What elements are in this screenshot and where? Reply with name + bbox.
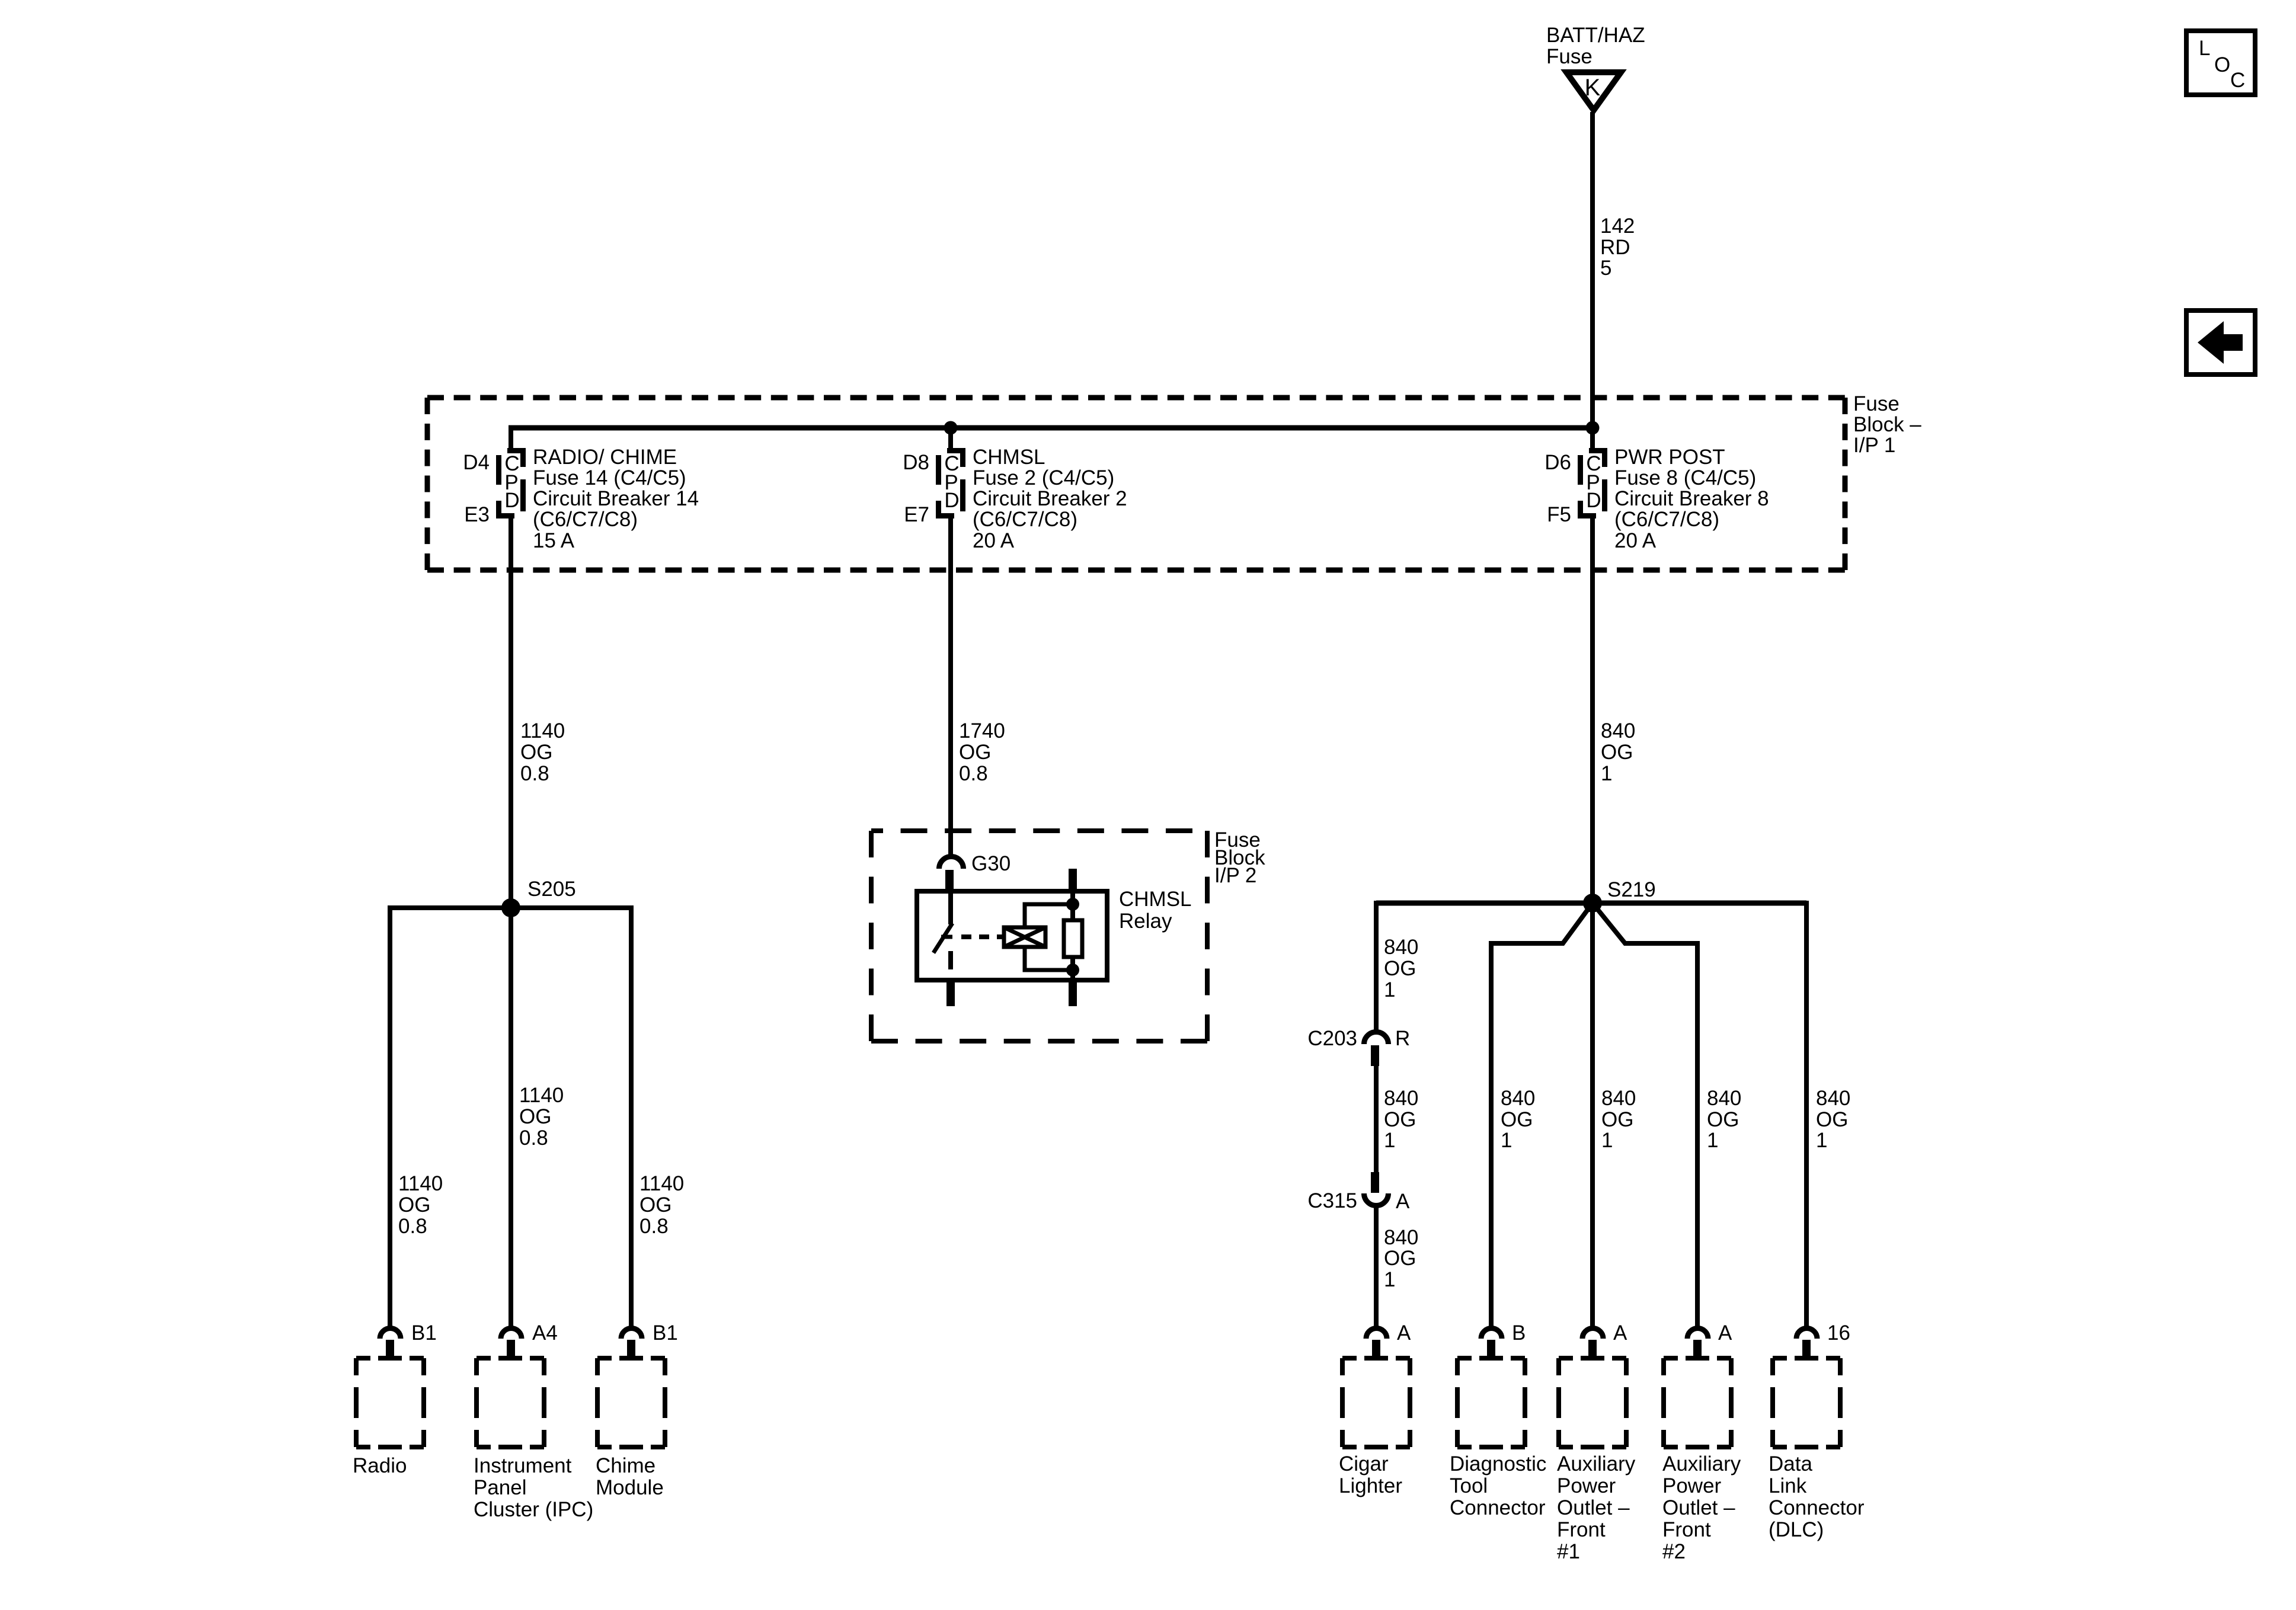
Data Link Connector dashed box	[1773, 1358, 1840, 1447]
svg-text:Link: Link	[1769, 1474, 1807, 1497]
svg-text:S219: S219	[1607, 878, 1656, 901]
svg-text:A: A	[1613, 1321, 1627, 1345]
label Cigar Lighter	[1339, 1452, 1402, 1497]
svg-text:D: D	[944, 489, 959, 512]
wire S219 to Diagnostic Tool Connector (diagonal branch)	[1491, 903, 1593, 1329]
svg-text:Cluster (IPC): Cluster (IPC)	[474, 1498, 593, 1521]
connector B at Diagnostic Tool Connector	[1481, 1321, 1526, 1358]
label Diagnostic Tool Connector	[1450, 1452, 1546, 1519]
svg-text:1140: 1140	[519, 1084, 564, 1107]
svg-text:840: 840	[1707, 1087, 1741, 1110]
label BATT/HAZ Fuse	[1546, 24, 1645, 68]
svg-text:Data: Data	[1769, 1452, 1812, 1475]
label Chime Module	[596, 1454, 664, 1499]
label 1140 OG 0.8 (Radio branch)	[398, 1172, 443, 1238]
wire bus to D4	[509, 425, 513, 450]
svg-text:D6: D6	[1544, 451, 1571, 474]
connector B1 at Chime Module	[621, 1321, 678, 1358]
connector C315 pin A	[1307, 1172, 1410, 1213]
label 1740 OG 0.8	[959, 719, 1005, 785]
wire E7 to G30 (1740 OG)	[948, 516, 953, 857]
svg-text:Connector: Connector	[1769, 1496, 1865, 1519]
svg-text:CHMSL: CHMSL	[1119, 888, 1192, 911]
label Fuse Block - I/P 1	[1853, 392, 1921, 457]
svg-text:PWR POST: PWR POST	[1614, 446, 1725, 469]
svg-text:Panel: Panel	[474, 1476, 527, 1499]
wire S205 branch bus	[390, 905, 631, 910]
svg-text:OG: OG	[520, 741, 552, 764]
svg-text:C315: C315	[1307, 1189, 1357, 1212]
wire rail top	[1070, 891, 1075, 922]
svg-text:Cigar: Cigar	[1339, 1452, 1389, 1475]
svg-text:840: 840	[1384, 1087, 1418, 1110]
back-arrow navigation box	[2186, 311, 2255, 375]
svg-text:20 A: 20 A	[973, 529, 1015, 552]
svg-text:OG: OG	[1601, 741, 1633, 764]
svg-text:I/P 1: I/P 1	[1853, 434, 1895, 457]
svg-text:A4: A4	[532, 1321, 558, 1345]
svg-text:Fuse 2 (C4/C5): Fuse 2 (C4/C5)	[973, 466, 1114, 489]
wire S219 to DLC (down at right)	[1804, 901, 1809, 1329]
svg-text:840: 840	[1816, 1087, 1850, 1110]
svg-text:OG: OG	[1601, 1108, 1633, 1131]
svg-text:OG: OG	[1384, 1108, 1416, 1131]
svg-text:O: O	[2214, 53, 2230, 76]
svg-text:Module: Module	[596, 1476, 664, 1499]
svg-text:1140: 1140	[520, 719, 565, 742]
label PWR POST fuse description	[1614, 446, 1769, 552]
svg-text:B1: B1	[411, 1321, 437, 1345]
junction dot at D8 tap	[944, 421, 958, 435]
svg-text:1140: 1140	[398, 1172, 443, 1195]
svg-text:OG: OG	[1707, 1108, 1739, 1131]
svg-text:A: A	[1718, 1321, 1732, 1345]
svg-text:Block –: Block –	[1853, 413, 1921, 436]
relay coil (solenoid box with X)	[1004, 927, 1045, 947]
svg-text:CHMSL: CHMSL	[973, 446, 1045, 469]
svg-text:(DLC): (DLC)	[1769, 1518, 1824, 1541]
svg-text:C: C	[2230, 69, 2245, 92]
svg-text:OG: OG	[1816, 1108, 1848, 1131]
Fuse Block I/P 2 dashed box	[871, 831, 1207, 1041]
svg-text:Power: Power	[1557, 1474, 1616, 1497]
svg-text:840: 840	[1501, 1087, 1535, 1110]
wire coil to rail (bottom)	[1025, 947, 1073, 970]
svg-text:0.8: 0.8	[639, 1215, 669, 1238]
wire S205 to Chime Module	[629, 905, 634, 1329]
fuse/circuit breaker symbol D6/F5 (PWR POST Fuse 8)	[1578, 448, 1607, 518]
bus wire inside fuse block	[509, 425, 1593, 431]
svg-text:OG: OG	[398, 1193, 430, 1217]
svg-text:840: 840	[1384, 1226, 1418, 1249]
svg-text:OG: OG	[519, 1105, 551, 1128]
svg-text:OG: OG	[1384, 1247, 1416, 1270]
label 1140 OG 0.8 (IPC branch)	[519, 1084, 564, 1150]
relay switch (movable contact)	[933, 891, 952, 969]
svg-text:Auxiliary: Auxiliary	[1557, 1452, 1636, 1475]
label 840 OG 1 (between C203 and C315)	[1384, 1087, 1418, 1152]
svg-text:Fuse: Fuse	[1546, 45, 1593, 68]
relay switch bottom pin	[946, 980, 955, 1006]
label 840 OG 1 (Diagnostic branch)	[1501, 1087, 1535, 1152]
svg-text:1: 1	[1501, 1129, 1512, 1152]
svg-text:16: 16	[1827, 1321, 1850, 1345]
svg-text:1: 1	[1601, 762, 1612, 785]
label RADIO/CHIME fuse description	[533, 446, 699, 552]
wire 142 RD 5 (from fuse K to fuse block)	[1590, 112, 1595, 450]
junction dot coil bottom / rail	[1066, 964, 1079, 977]
svg-text:K: K	[1585, 75, 1601, 101]
resistor inside relay	[1064, 920, 1082, 957]
svg-text:F5: F5	[1547, 503, 1571, 526]
svg-text:Fuse 14 (C4/C5): Fuse 14 (C4/C5)	[533, 466, 686, 489]
label 1140 OG 0.8 (E3 branch)	[520, 719, 565, 785]
relay right rail top pin	[1069, 869, 1077, 892]
relay right rail bottom pin	[1069, 980, 1077, 1006]
Cigar Lighter dashed box	[1342, 1358, 1410, 1447]
label Instrument Panel Cluster (IPC)	[474, 1454, 593, 1521]
fuse/circuit breaker symbol D8/E7 (CHMSL Fuse 2)	[936, 448, 965, 518]
connector A at Aux Power Outlet 1	[1582, 1321, 1627, 1358]
svg-text:D: D	[1586, 489, 1601, 512]
svg-text:0.8: 0.8	[520, 762, 549, 785]
svg-text:1: 1	[1384, 978, 1395, 1001]
svg-text:1: 1	[1384, 1129, 1395, 1152]
svg-text:RADIO/ CHIME: RADIO/ CHIME	[533, 446, 677, 469]
svg-text:D: D	[504, 489, 519, 512]
svg-text:0.8: 0.8	[959, 762, 988, 785]
svg-text:L: L	[2199, 37, 2210, 60]
LOC legend box	[2186, 31, 2255, 95]
svg-text:840: 840	[1384, 936, 1418, 959]
svg-text:B: B	[1512, 1321, 1526, 1345]
svg-text:S205: S205	[527, 878, 576, 901]
junction dot at 142-RD wire / bus	[1586, 421, 1600, 435]
svg-text:Lighter: Lighter	[1339, 1474, 1402, 1497]
svg-text:1140: 1140	[639, 1172, 684, 1195]
svg-text:840: 840	[1601, 1087, 1636, 1110]
label 840 OG 1 (Aux Outlet 2 branch)	[1707, 1087, 1741, 1152]
svg-text:A: A	[1396, 1190, 1410, 1213]
svg-text:A: A	[1397, 1321, 1411, 1345]
wire S205 to IPC	[509, 908, 513, 1329]
wire C315 to Cigar Lighter	[1374, 1204, 1379, 1329]
svg-text:1: 1	[1601, 1129, 1613, 1152]
wire bus to D8	[948, 428, 953, 450]
svg-text:Instrument: Instrument	[474, 1454, 572, 1477]
relay actuator dashed link	[961, 934, 1004, 939]
svg-text:0.8: 0.8	[519, 1126, 548, 1150]
svg-text:G30: G30	[971, 852, 1011, 875]
label Data Link Connector (DLC)	[1769, 1452, 1865, 1541]
svg-text:Outlet –: Outlet –	[1557, 1496, 1630, 1519]
connector B1 at Radio	[380, 1321, 437, 1358]
connector A at Cigar Lighter	[1366, 1321, 1411, 1358]
connector 16 at DLC	[1796, 1321, 1850, 1358]
svg-text:R: R	[1395, 1027, 1410, 1050]
svg-text:#2: #2	[1662, 1540, 1686, 1563]
connector A4 at IPC	[501, 1321, 558, 1358]
label 142 RD 5	[1600, 215, 1635, 280]
svg-text:D4: D4	[463, 451, 490, 474]
label Auxiliary Power Outlet Front 2	[1662, 1452, 1741, 1563]
label CHMSL Relay	[1119, 888, 1192, 933]
Fuse Block I/P 1 dashed box	[427, 398, 1845, 570]
connector G30	[939, 852, 1011, 889]
label 840 OG 1 (Aux Outlet 1 branch)	[1601, 1087, 1636, 1152]
splice S205	[501, 878, 576, 917]
fuse/circuit breaker symbol D4/E3 (RADIO/CHIME Fuse 14)	[496, 448, 526, 518]
svg-text:Fuse 8 (C4/C5): Fuse 8 (C4/C5)	[1614, 466, 1756, 489]
svg-text:1: 1	[1816, 1129, 1827, 1152]
svg-text:(C6/C7/C8): (C6/C7/C8)	[533, 508, 638, 531]
Chime Module dashed box	[597, 1358, 665, 1447]
svg-text:Tool: Tool	[1450, 1474, 1488, 1497]
splice S219	[1583, 878, 1656, 913]
svg-text:Connector: Connector	[1450, 1496, 1546, 1519]
label 840 OG 1 (DLC branch)	[1816, 1087, 1850, 1152]
svg-text:5: 5	[1600, 257, 1611, 280]
svg-text:15 A: 15 A	[533, 529, 575, 552]
svg-text:OG: OG	[959, 741, 991, 764]
svg-text:Radio: Radio	[353, 1454, 407, 1477]
svg-text:E3: E3	[464, 503, 490, 526]
svg-text:Circuit Breaker 8: Circuit Breaker 8	[1614, 487, 1769, 510]
wire S205 to Radio	[388, 905, 392, 1329]
svg-text:(C6/C7/C8): (C6/C7/C8)	[1614, 508, 1719, 531]
label 1140 OG 0.8 (Chime branch)	[639, 1172, 684, 1238]
svg-text:D8: D8	[903, 451, 929, 474]
connector A at Aux Power Outlet 2	[1687, 1321, 1732, 1358]
label Fuse Block I/P 2	[1214, 828, 1265, 887]
wire rail bottom	[1070, 957, 1075, 980]
label 840 OG 1 (C203 branch upper)	[1384, 936, 1418, 1001]
Auxiliary Power Outlet Front 1 dashed box	[1559, 1358, 1626, 1447]
wire S219 to C203 (down at left)	[1374, 901, 1379, 1033]
svg-text:Auxiliary: Auxiliary	[1662, 1452, 1741, 1475]
svg-text:OG: OG	[1384, 957, 1416, 980]
wire S219 branch bus	[1376, 901, 1806, 906]
svg-text:1: 1	[1384, 1268, 1395, 1291]
svg-text:1740: 1740	[959, 719, 1005, 742]
svg-text:Fuse: Fuse	[1853, 392, 1900, 415]
wire C203 to C315	[1374, 1064, 1379, 1174]
CHMSL relay box	[917, 891, 1107, 980]
junction dot coil top / rail	[1066, 898, 1079, 911]
svg-text:Circuit Breaker 2: Circuit Breaker 2	[973, 487, 1127, 510]
wire S219 to Auxiliary Power Outlet 2 (diagonal branch)	[1593, 903, 1697, 1329]
svg-text:Diagnostic: Diagnostic	[1450, 1452, 1546, 1475]
Instrument Panel Cluster dashed box	[477, 1358, 544, 1447]
svg-text:Front: Front	[1662, 1518, 1711, 1541]
svg-text:OG: OG	[639, 1193, 671, 1217]
svg-text:E7: E7	[904, 503, 929, 526]
svg-text:Front: Front	[1557, 1518, 1606, 1541]
svg-text:C203: C203	[1307, 1027, 1357, 1050]
label Auxiliary Power Outlet Front 1	[1557, 1452, 1636, 1563]
label 840 OG 1 (F5 branch)	[1601, 719, 1635, 785]
connector C203 pin R	[1307, 1027, 1410, 1066]
wire F5 to S219 (840 OG)	[1590, 516, 1595, 903]
svg-text:840: 840	[1601, 719, 1635, 742]
svg-text:0.8: 0.8	[398, 1215, 427, 1238]
wire E3 to S205 (1140 OG)	[509, 516, 513, 908]
svg-text:RD: RD	[1600, 236, 1630, 259]
svg-text:(C6/C7/C8): (C6/C7/C8)	[973, 508, 1077, 531]
Auxiliary Power Outlet Front 2 dashed box	[1664, 1358, 1731, 1447]
svg-text:#1: #1	[1557, 1540, 1580, 1563]
svg-text:142: 142	[1600, 215, 1635, 238]
wire S219 to Auxiliary Power Outlet 1 (straight down)	[1590, 903, 1595, 1329]
svg-text:Relay: Relay	[1119, 910, 1172, 933]
svg-text:Power: Power	[1662, 1474, 1722, 1497]
svg-text:Chime: Chime	[596, 1454, 655, 1477]
svg-text:B1: B1	[653, 1321, 678, 1345]
svg-text:Outlet –: Outlet –	[1662, 1496, 1735, 1519]
svg-text:BATT/HAZ: BATT/HAZ	[1546, 24, 1645, 47]
svg-text:20 A: 20 A	[1614, 529, 1657, 552]
Radio dashed box	[356, 1358, 424, 1447]
label CHMSL fuse description	[973, 446, 1127, 552]
wire coil to rail (top)	[1025, 904, 1073, 927]
fuse symbol K (BATT/HAZ fuse, triangle)	[1566, 72, 1621, 110]
svg-text:OG: OG	[1501, 1108, 1533, 1131]
Diagnostic Tool Connector dashed box	[1457, 1358, 1525, 1447]
svg-text:I/P 2: I/P 2	[1214, 864, 1256, 887]
svg-text:1: 1	[1707, 1129, 1718, 1152]
svg-text:Circuit Breaker 14: Circuit Breaker 14	[533, 487, 699, 510]
label 840 OG 1 (below C315)	[1384, 1226, 1418, 1291]
